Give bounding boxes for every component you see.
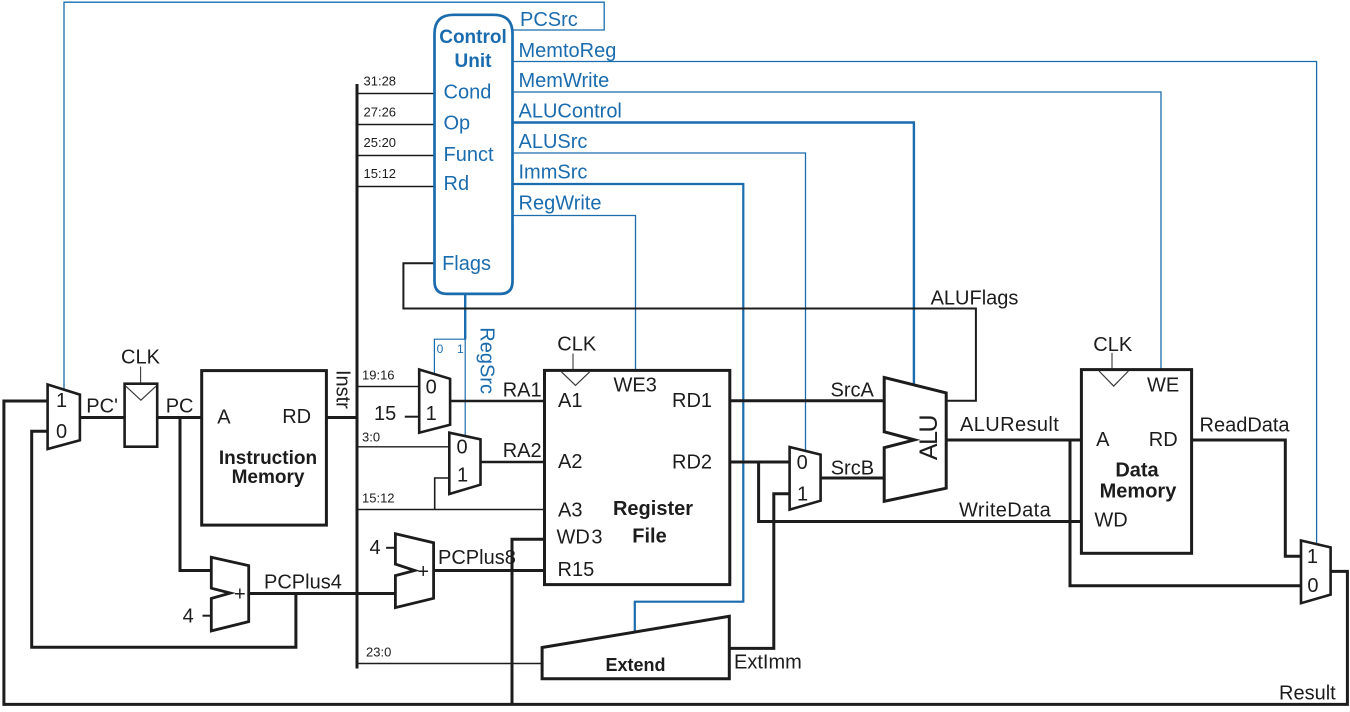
svg-text:1: 1: [457, 465, 468, 487]
svg-text:RD2: RD2: [672, 452, 712, 474]
block Data Memory: [1081, 370, 1191, 554]
wire tap Instr 31:28 to Cond: [357, 93, 435, 95]
svg-text:RegWrite: RegWrite: [519, 193, 602, 215]
svg-text:MemWrite: MemWrite: [519, 70, 610, 92]
svg-text:4: 4: [183, 606, 194, 628]
svg-text:R15: R15: [558, 559, 595, 581]
svg-text:1: 1: [56, 390, 67, 412]
svg-text:ImmSrc: ImmSrc: [519, 162, 588, 184]
wire ALUControl (blue bus): [513, 123, 914, 385]
svg-text:WE3: WE3: [614, 375, 657, 397]
svg-text:RD1: RD1: [672, 390, 712, 412]
wire PCPlus8 output to R15: [434, 569, 545, 572]
wire PCSrc (blue): [64, 2, 604, 389]
wire RegSrc bit0 branch (blue): [434, 339, 465, 374]
svg-text:Register: Register: [613, 498, 693, 520]
svg-text:CLK: CLK: [557, 334, 597, 356]
svg-text:PCPlus4: PCPlus4: [264, 572, 342, 594]
block Register File: [545, 370, 730, 584]
svg-text:A2: A2: [558, 451, 582, 473]
wire PCPlus4 feedback to PC mux 0: [32, 431, 296, 647]
svg-text:1: 1: [1307, 546, 1318, 568]
wire ReadData to result mux 1: [1192, 440, 1301, 556]
wire Instr bus (vertical): [356, 84, 359, 669]
wire RegWrite (blue): [513, 216, 636, 371]
svg-text:PC': PC': [86, 396, 118, 418]
svg-text:WriteData: WriteData: [959, 500, 1052, 522]
register PC: [125, 384, 158, 447]
svg-text:Flags: Flags: [442, 253, 491, 275]
wire RA1: [450, 400, 544, 403]
svg-text:4: 4: [369, 537, 380, 559]
svg-text:0: 0: [437, 342, 444, 356]
svg-text:0: 0: [456, 437, 467, 459]
wire constant 15 stub: [405, 416, 419, 418]
wire constant 4 stub (PCPlus8): [386, 547, 395, 549]
wire RA2 mux 1 input: [435, 478, 450, 510]
svg-text:MemtoReg: MemtoReg: [519, 40, 617, 62]
block Instruction Memory: [202, 371, 327, 525]
svg-text:Data: Data: [1115, 460, 1159, 482]
svg-text:RegSrc: RegSrc: [476, 327, 498, 394]
wire Result to WD3: [512, 539, 545, 704]
mux RegSrc0 (RA1): [419, 370, 450, 433]
wire SrcB: [821, 477, 885, 480]
svg-text:0: 0: [1307, 575, 1318, 597]
svg-text:ReadData: ReadData: [1200, 415, 1291, 437]
svg-text:ExtImm: ExtImm: [734, 652, 802, 674]
svg-text:+: +: [234, 584, 246, 606]
svg-text:0: 0: [797, 452, 808, 474]
clock chevron data memory: [1099, 371, 1128, 386]
wire ALUResult: [946, 439, 1081, 442]
svg-text:3:0: 3:0: [362, 430, 380, 445]
svg-text:Result: Result: [1279, 683, 1336, 705]
svg-text:PCPlus8: PCPlus8: [438, 547, 516, 569]
svg-text:CLK: CLK: [1093, 334, 1133, 356]
wire PC: [157, 416, 202, 419]
mux ALUSrc (SrcB select): [790, 447, 821, 510]
wire tap Instr 19:16 to RA1 mux 0: [357, 386, 419, 388]
svg-text:+: +: [417, 561, 429, 583]
svg-text:1: 1: [457, 342, 464, 356]
svg-text:PC: PC: [166, 396, 194, 418]
svg-text:Unit: Unit: [455, 51, 493, 72]
svg-text:CLK: CLK: [121, 347, 161, 369]
svg-text:15: 15: [374, 403, 396, 425]
wire constant 4 stub (PCPlus4): [203, 615, 212, 617]
wire RA2: [481, 461, 545, 464]
svg-text:27:26: 27:26: [364, 105, 397, 120]
wire CLK stub PC register: [140, 367, 142, 384]
wire ExtImm to SrcB mux 1: [729, 494, 789, 649]
wire CLK stub register file: [572, 354, 574, 371]
svg-text:Extend: Extend: [605, 655, 665, 675]
svg-text:Memory: Memory: [1100, 481, 1178, 503]
wire PC branch to PCPlus4 adder: [180, 416, 211, 571]
svg-text:1: 1: [797, 484, 808, 506]
svg-text:Instr: Instr: [332, 370, 354, 409]
alu U1: [884, 378, 946, 502]
svg-text:RD: RD: [282, 406, 311, 428]
svg-text:0: 0: [56, 421, 67, 443]
wire RegSrc stem (blue bus): [464, 294, 466, 339]
wire CLK stub data memory: [1111, 353, 1113, 370]
wire RegSrc bit1 branch (blue): [464, 339, 466, 436]
svg-text:RA2: RA2: [503, 440, 542, 462]
wire tap Instr 23:0 to Extend: [357, 663, 542, 665]
svg-text:A: A: [1096, 429, 1110, 451]
svg-text:25:20: 25:20: [364, 135, 397, 150]
svg-text:WD3: WD3: [557, 527, 603, 549]
svg-text:WE: WE: [1147, 375, 1179, 397]
svg-text:PCSrc: PCSrc: [520, 9, 578, 31]
svg-text:Op: Op: [444, 113, 471, 135]
wire MemWrite (blue): [513, 92, 1162, 370]
svg-text:A1: A1: [558, 390, 582, 412]
svg-text:RD: RD: [1149, 429, 1178, 451]
svg-text:Instruction: Instruction: [219, 448, 317, 469]
wire ALUResult branch to result mux 0: [1070, 439, 1301, 586]
wire RD2: [730, 461, 790, 464]
block Control Unit: [435, 15, 513, 294]
mux MemtoReg (result select): [1301, 541, 1331, 604]
block Extend: [542, 616, 729, 678]
svg-text:SrcB: SrcB: [831, 458, 874, 480]
svg-text:Cond: Cond: [444, 82, 492, 104]
svg-text:WD: WD: [1094, 510, 1127, 532]
svg-text:ALUControl: ALUControl: [519, 101, 622, 123]
wire Instr (IM RD to bus): [326, 416, 357, 419]
clock chevron PC: [126, 386, 156, 400]
svg-text:0: 0: [426, 377, 437, 399]
mux PCSrc (PC' select): [48, 385, 80, 450]
svg-text:ALUResult: ALUResult: [960, 414, 1059, 436]
wire Result rail (mux output, right edge, bottom, left edge to PC mux 1): [4, 401, 1348, 704]
wire RD1 SrcA: [730, 399, 884, 402]
wire MemtoReg (blue): [513, 62, 1317, 544]
svg-text:ALUFlags: ALUFlags: [931, 288, 1019, 310]
wire WriteData: [759, 462, 1082, 522]
svg-text:15:12: 15:12: [364, 166, 397, 181]
wire ALUSrc (blue): [513, 153, 806, 451]
svg-text:ALU: ALU: [915, 415, 943, 460]
svg-text:31:28: 31:28: [364, 74, 397, 89]
svg-text:Funct: Funct: [444, 144, 494, 166]
wire tap Instr 15:12 to A3: [357, 509, 545, 511]
wire tap Instr 15:12 to Rd: [357, 186, 435, 188]
svg-text:A: A: [217, 407, 231, 429]
svg-text:ALUSrc: ALUSrc: [519, 131, 588, 153]
svg-text:1: 1: [426, 403, 437, 425]
svg-text:Memory: Memory: [232, 467, 305, 488]
wire ALUFlags to Flags: [403, 263, 976, 401]
wire tap Instr 27:26 to Op: [357, 124, 435, 126]
adder PCPlus8: [395, 534, 433, 608]
adder PCPlus4: [211, 557, 248, 631]
mux RegSrc1 (RA2): [449, 433, 480, 494]
svg-text:File: File: [632, 526, 666, 548]
svg-text:15:12: 15:12: [362, 491, 395, 506]
svg-text:Control: Control: [439, 27, 507, 48]
wire PC': [80, 416, 125, 419]
svg-text:RA1: RA1: [503, 380, 542, 402]
wire PCPlus4 output: [249, 592, 396, 595]
svg-text:SrcA: SrcA: [831, 380, 875, 402]
clock chevron register file: [562, 372, 590, 386]
svg-text:A3: A3: [558, 500, 582, 522]
wire tap Instr 25:20 to Funct: [357, 155, 435, 157]
svg-text:19:16: 19:16: [362, 368, 395, 383]
wire tap Instr 3:0 to RA2 mux 0: [357, 446, 449, 448]
svg-text:Rd: Rd: [444, 173, 470, 195]
svg-text:23:0: 23:0: [366, 645, 391, 660]
wire ImmSrc (blue bus): [513, 184, 744, 632]
